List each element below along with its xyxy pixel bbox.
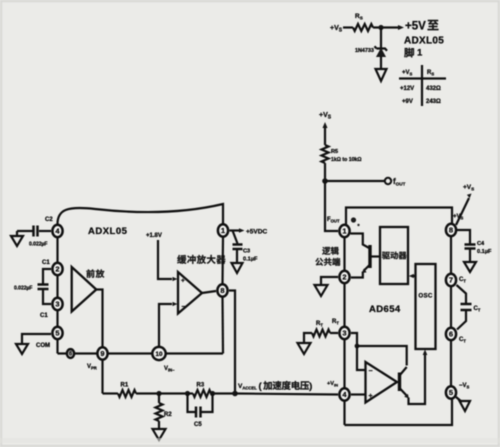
pin 2 <box>52 263 62 275</box>
resistor R5 1k to 10k <box>322 145 329 163</box>
svg-text:RS: RS <box>427 70 434 77</box>
svg-text:CT: CT <box>474 306 481 313</box>
wire top edge (curved) <box>57 204 223 225</box>
svg-text:+VIN: +VIN <box>327 381 338 388</box>
svg-text:0.1µF: 0.1µF <box>477 249 492 255</box>
pin 6 CT <box>446 328 456 340</box>
pin 1 FOUT <box>339 225 349 237</box>
ground (COM) <box>16 344 28 354</box>
wire buffer out to pin 8 <box>202 291 216 293</box>
capacitor C5 (parallel R3) <box>188 394 197 413</box>
ground (C2) <box>11 236 23 246</box>
svg-text:RT: RT <box>316 321 323 328</box>
svg-text:RT: RT <box>332 319 339 326</box>
svg-text:6: 6 <box>449 330 453 339</box>
svg-text:7: 7 <box>449 276 453 285</box>
svg-text:C4: C4 <box>477 241 485 247</box>
wire <box>159 392 188 394</box>
svg-text:C3: C3 <box>243 249 250 255</box>
label logic common 逻辑公共端 <box>322 247 330 255</box>
svg-text:1: 1 <box>342 227 346 236</box>
pin 7 CT <box>446 274 456 286</box>
wire pin8 to VACCEL node <box>229 291 235 394</box>
svg-text:C1: C1 <box>40 313 48 319</box>
driver box 驱动器 <box>380 227 408 284</box>
arrow into OSC <box>423 350 428 356</box>
wire pin1 out <box>230 229 240 231</box>
arrow up to +VS <box>322 122 327 128</box>
pin 4 +VIN <box>351 393 366 395</box>
ground (RT) <box>298 343 311 354</box>
svg-text:R1: R1 <box>121 383 129 389</box>
svg-text:1kΩ to 10kΩ: 1kΩ to 10kΩ <box>331 157 362 163</box>
terminal fOUT <box>385 178 391 184</box>
capacitor C3 0.1uF <box>233 231 238 244</box>
svg-text:VPR: VPR <box>87 364 97 371</box>
wire bottom rail <box>345 393 453 426</box>
svg-text:C2: C2 <box>45 217 53 223</box>
wire pin10 to buffer − input <box>159 304 172 347</box>
ground (-VS) open arrow <box>456 397 462 402</box>
arrow to +5V output <box>398 25 404 30</box>
buffer amp 缓冲放大器 <box>177 255 186 264</box>
wire top rail pin1 to pin8 <box>346 208 452 226</box>
ground (R2) <box>153 429 166 440</box>
svg-text:1: 1 <box>221 226 225 235</box>
node VACCEL <box>232 391 238 397</box>
resistor R2 <box>158 394 160 404</box>
wire down to pin 1 <box>325 181 338 231</box>
svg-text:): ) <box>309 381 312 392</box>
pin 4 C2 <box>52 225 62 237</box>
pin 1 +5VDC <box>218 224 228 236</box>
svg-text:+: + <box>369 393 373 400</box>
transistor Q1 (output, open collector) <box>351 234 371 249</box>
capacitor C4 0.1uF <box>457 230 470 244</box>
svg-text:+5V: +5V <box>405 21 426 33</box>
ground (zener) <box>376 69 387 81</box>
svg-text:ADXL05: ADXL05 <box>404 36 444 47</box>
ground (C3) <box>232 263 243 273</box>
op-amp U2 (V-to-I) <box>366 362 398 403</box>
wire pin9 down <box>101 360 103 394</box>
wire <box>343 26 353 28</box>
svg-text:C1: C1 <box>42 260 50 266</box>
svg-text:8: 8 <box>220 286 224 295</box>
pin 3 <box>52 298 62 310</box>
svg-text:CT: CT <box>459 337 466 344</box>
ground (logic common) <box>315 285 328 296</box>
scan artifact stripe <box>0 438 500 443</box>
arrow OSC to driver <box>413 275 416 277</box>
svg-text:1N4733: 1N4733 <box>355 48 374 54</box>
svg-text:9: 9 <box>100 349 104 358</box>
svg-text:−: − <box>182 304 186 311</box>
svg-text:AD654: AD654 <box>369 304 401 315</box>
wire VACCEL to pin 4 <box>235 394 338 395</box>
svg-text:−: − <box>369 368 373 375</box>
pin 8 buffer out <box>217 284 227 296</box>
svg-text:0.022µF: 0.022µF <box>29 242 47 248</box>
wire left pin column (4-2-3-5) <box>56 225 58 354</box>
svg-text:3: 3 <box>55 300 59 309</box>
junction <box>185 391 190 396</box>
svg-text:+9V: +9V <box>402 99 413 105</box>
svg-text:ADXL05: ADXL05 <box>88 226 128 237</box>
pin 5 -VS <box>446 386 456 398</box>
wire <box>324 163 326 181</box>
ink blob artifact <box>351 217 356 222</box>
svg-text:C5: C5 <box>194 422 202 428</box>
wire bottom edge <box>58 352 224 354</box>
wire pin3 to opamp and mirror <box>351 333 357 346</box>
svg-text:10: 10 <box>155 351 163 358</box>
pin 6 self test <box>67 349 74 358</box>
preamp 前放 <box>86 269 94 277</box>
pin 9 VPR <box>97 347 107 359</box>
svg-text:FOUT: FOUT <box>327 217 340 224</box>
svg-text:+1.8V: +1.8V <box>146 233 162 239</box>
wire left pin column (pins 1-2-3-4) <box>343 231 345 425</box>
wire pin5/COM to ground <box>22 334 51 344</box>
svg-text:0.1µF: 0.1µF <box>243 257 258 263</box>
svg-text:2: 2 <box>55 265 59 274</box>
table rule horizontal <box>399 77 446 79</box>
wire preamp out to pin 9 <box>96 290 102 348</box>
wire right edge pin1-pin8 <box>221 237 224 284</box>
transistor Q2 <box>398 373 401 392</box>
wire to fOUT terminal <box>325 180 384 182</box>
OSC box <box>416 264 436 349</box>
svg-text:1: 1 <box>417 48 423 59</box>
table rule vertical <box>421 65 423 106</box>
wire <box>380 28 382 49</box>
svg-text:3: 3 <box>342 329 346 338</box>
svg-text:432Ω: 432Ω <box>426 86 441 92</box>
svg-text:+: + <box>181 278 185 285</box>
pin 5 COM <box>52 327 62 339</box>
wire +1.8V to buffer + input <box>158 240 172 279</box>
wire <box>380 57 382 70</box>
junction <box>378 25 383 30</box>
svg-text:−VS: −VS <box>459 383 470 390</box>
pin 8 +VS <box>446 224 456 236</box>
wire pin2 to ground <box>321 277 338 284</box>
svg-text:OSC: OSC <box>418 293 433 300</box>
svg-text:5: 5 <box>449 388 453 397</box>
svg-text:COM: COM <box>36 343 50 349</box>
capacitor CT <box>457 285 467 303</box>
pin 2 <box>339 271 349 283</box>
pin 10 VIN- <box>152 347 165 360</box>
svg-text:CT: CT <box>459 277 466 284</box>
junction <box>322 178 328 184</box>
svg-text:8: 8 <box>449 226 453 235</box>
junction <box>156 391 161 396</box>
junction <box>210 391 215 396</box>
svg-text:+12V: +12V <box>400 86 414 92</box>
pin 3 RT <box>339 327 349 339</box>
svg-text:2: 2 <box>342 273 346 282</box>
svg-text:+5VDC: +5VDC <box>246 229 267 236</box>
svg-text:R2: R2 <box>164 412 172 418</box>
svg-text:0.022µF: 0.022µF <box>14 286 32 292</box>
wire/arrow pin8 to +VS <box>456 198 469 225</box>
wire right pin column (pins 8-7-6-5) <box>450 223 452 399</box>
ground (C4) <box>464 262 476 272</box>
svg-text:R5: R5 <box>331 149 338 155</box>
svg-text:243Ω: 243Ω <box>426 99 441 105</box>
svg-text:VIN−: VIN− <box>164 366 175 373</box>
wire <box>373 26 399 28</box>
svg-text:5: 5 <box>55 329 59 338</box>
svg-text:+VS: +VS <box>402 70 413 77</box>
